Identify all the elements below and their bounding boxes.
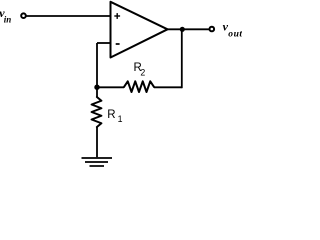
svg-text:in: in xyxy=(4,15,12,25)
svg-text:R: R xyxy=(107,109,115,121)
svg-text:2: 2 xyxy=(140,67,145,77)
svg-text:1: 1 xyxy=(118,114,123,124)
svg-text:out: out xyxy=(228,30,242,40)
